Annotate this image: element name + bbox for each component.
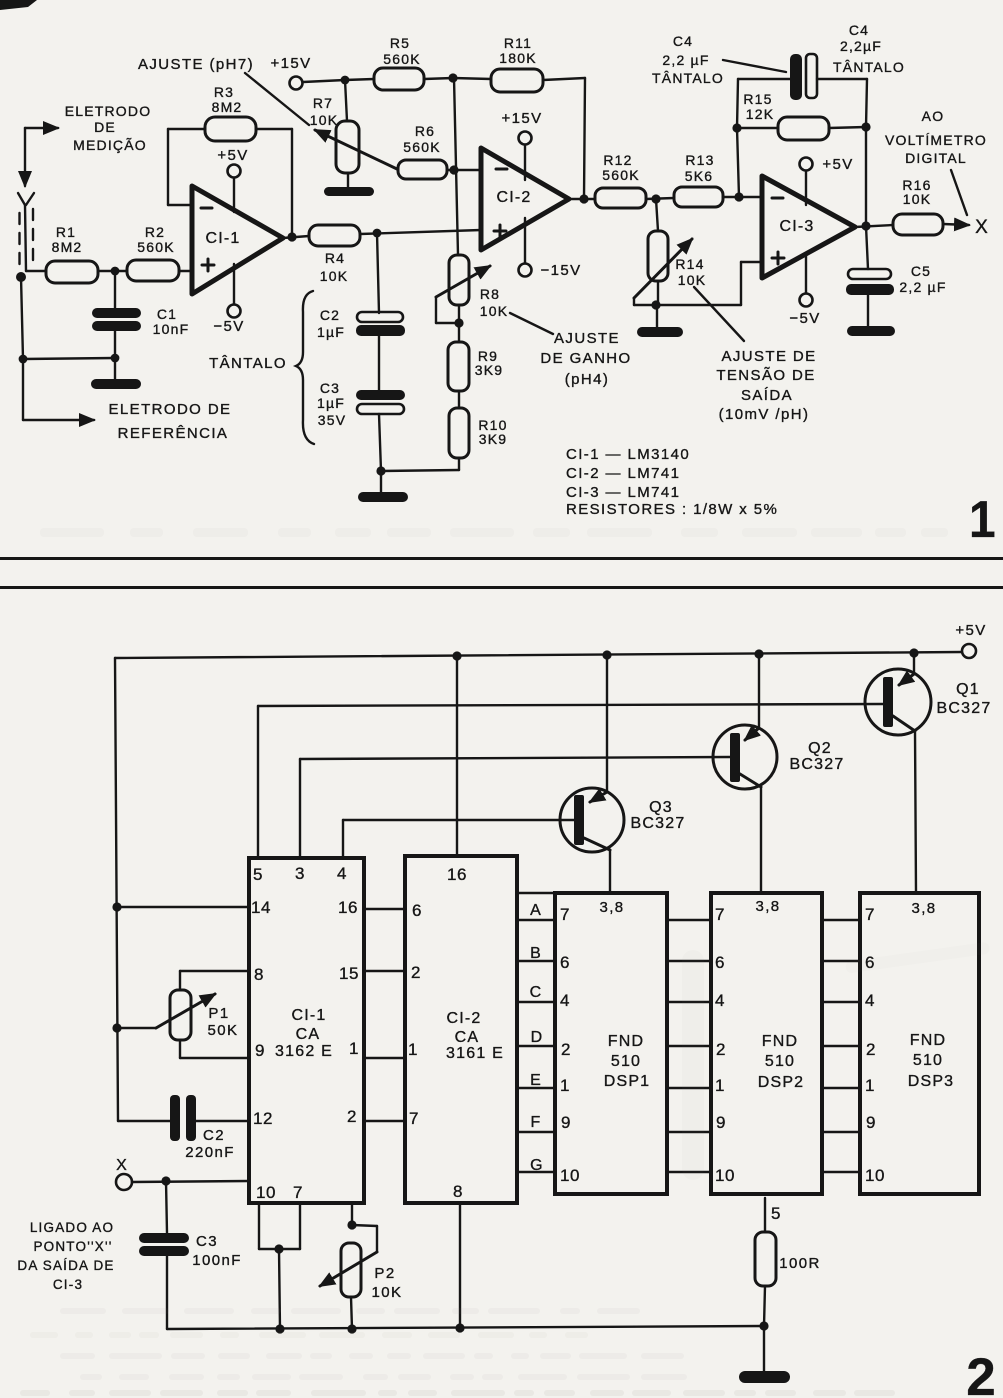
svg-text:CI-3: CI-3 <box>53 1277 83 1292</box>
svg-text:DE GANHO: DE GANHO <box>540 350 631 367</box>
node left rail <box>19 355 28 364</box>
node R1-R2-C1 <box>111 267 120 276</box>
svg-text:9: 9 <box>255 1041 265 1060</box>
svg-text:FND: FND <box>762 1033 798 1050</box>
bus DSP1-DSP2 <box>667 920 711 1172</box>
svg-text:CI-1: CI-1 <box>205 230 240 247</box>
label ELETRODO DE MEDICAO <box>65 103 152 153</box>
wire pin14 <box>117 906 249 908</box>
node X-C3 <box>161 1176 170 1185</box>
wire <box>179 270 193 272</box>
svg-text:C4: C4 <box>673 33 693 49</box>
wire CI1-2 to CI2-7 <box>364 1120 405 1122</box>
svg-text:BC327: BC327 <box>631 815 686 832</box>
wire <box>303 80 345 82</box>
ground fig2 <box>739 1326 790 1383</box>
wire pins 10-7 <box>259 1203 300 1329</box>
svg-text:3162 E: 3162 E <box>275 1043 333 1060</box>
wire bottom rail <box>167 1326 764 1329</box>
op-amp CI-3 <box>762 176 855 278</box>
electrode probe symbol <box>18 193 34 271</box>
arrow to measurement electrode <box>25 128 58 186</box>
svg-text:CI-3 — LM741: CI-3 — LM741 <box>566 484 680 501</box>
svg-text:1: 1 <box>865 1076 875 1095</box>
capacitor C1 <box>92 271 189 358</box>
svg-text:14: 14 <box>251 898 271 917</box>
svg-text:100R: 100R <box>779 1255 820 1272</box>
node CI-3 output <box>861 221 870 230</box>
svg-text:DSP3: DSP3 <box>908 1073 955 1090</box>
node pin14 <box>112 902 121 911</box>
IC CI-2 CA3161E <box>405 856 517 1203</box>
-5V supply CI-3 <box>789 255 820 327</box>
wire up to R15 <box>737 128 739 197</box>
parts list <box>566 446 778 518</box>
svg-text:6: 6 <box>412 901 422 920</box>
svg-text:180K: 180K <box>499 50 537 66</box>
svg-text:X: X <box>975 217 989 238</box>
node rail ground <box>759 1321 768 1330</box>
svg-text:DA SAÍDA DE: DA SAÍDA DE <box>17 1258 114 1273</box>
svg-text:1: 1 <box>715 1076 725 1095</box>
capacitor C2 <box>317 307 405 340</box>
wire CI2 pin8 to rail <box>459 1203 461 1328</box>
svg-text:X: X <box>116 1157 128 1174</box>
svg-text:A: A <box>530 902 542 919</box>
terminal +5V <box>955 622 986 658</box>
resistor R6 <box>398 123 454 179</box>
svg-text:3161 E: 3161 E <box>446 1045 504 1062</box>
svg-text:3: 3 <box>295 864 305 883</box>
trimpot R7 <box>310 80 397 173</box>
node CI-1 output <box>287 232 296 241</box>
svg-text:CI-3: CI-3 <box>779 218 814 235</box>
node rail pin10 <box>275 1324 284 1333</box>
wire <box>855 225 893 227</box>
svg-text:C5: C5 <box>911 263 931 279</box>
svg-text:9: 9 <box>716 1113 726 1132</box>
svg-text:AJUSTE: AJUSTE <box>554 330 620 347</box>
svg-text:CA: CA <box>455 1029 480 1046</box>
svg-text:8M2: 8M2 <box>212 99 243 115</box>
ground C5 <box>847 295 895 336</box>
wire to R10 <box>381 470 459 471</box>
display DSP3 FND510 <box>860 893 979 1194</box>
svg-text:510: 510 <box>913 1052 943 1069</box>
node P2 top <box>347 1220 356 1229</box>
wire to reference electrode <box>23 359 94 420</box>
display DSP1 FND510 <box>555 893 667 1194</box>
svg-text:7: 7 <box>865 905 875 924</box>
wire <box>26 270 46 272</box>
node R6-CI2 minus <box>449 165 458 174</box>
svg-text:C4: C4 <box>849 22 869 38</box>
svg-text:LIGADO AO: LIGADO AO <box>30 1220 114 1235</box>
svg-text:1: 1 <box>969 490 996 548</box>
wire C3 to bottom node <box>379 414 381 471</box>
ground divider <box>358 471 408 502</box>
svg-text:2: 2 <box>561 1040 571 1059</box>
svg-text:AO: AO <box>922 108 945 124</box>
resistor R13 <box>674 152 739 207</box>
svg-text:DE: DE <box>94 119 116 135</box>
svg-text:7: 7 <box>293 1183 303 1202</box>
svg-text:3,8: 3,8 <box>755 898 780 915</box>
wire <box>378 336 380 391</box>
ground R14 <box>637 305 683 337</box>
svg-text:R11: R11 <box>504 35 532 51</box>
node R13-R15 <box>734 192 743 201</box>
node pins10-7 <box>274 1244 283 1253</box>
svg-text:510: 510 <box>611 1053 641 1070</box>
svg-text:10K: 10K <box>480 303 509 319</box>
wire <box>23 358 115 359</box>
svg-text:2: 2 <box>866 1040 876 1059</box>
resistor R2 <box>127 224 179 281</box>
svg-text:R13: R13 <box>685 152 714 168</box>
wire left rail <box>115 658 118 1121</box>
svg-text:MEDIÇÃO: MEDIÇÃO <box>73 137 147 153</box>
node rail Q1 <box>909 648 918 657</box>
wire to CI-3 minus <box>739 196 762 198</box>
svg-text:R4: R4 <box>325 250 345 266</box>
svg-text:12K: 12K <box>746 106 775 122</box>
svg-text:BC327: BC327 <box>937 700 992 717</box>
node rail CI2-16 <box>452 651 461 660</box>
FIG2 <box>17 622 995 1398</box>
capacitor C3 <box>317 380 405 428</box>
svg-text:CI-2: CI-2 <box>496 189 531 206</box>
bus DSP2-DSP3 <box>822 920 860 1172</box>
svg-text:P1: P1 <box>208 1005 229 1022</box>
display DSP2 FND510 <box>711 893 822 1194</box>
svg-text:Q1: Q1 <box>956 681 980 698</box>
svg-text:2,2 µF: 2,2 µF <box>662 52 709 68</box>
transistor Q2 <box>713 654 844 893</box>
segment bus A-G <box>517 893 555 1174</box>
svg-text:C3: C3 <box>320 380 340 396</box>
svg-text:DSP2: DSP2 <box>758 1074 805 1091</box>
svg-text:TÂNTALO: TÂNTALO <box>652 70 724 86</box>
wire <box>283 236 309 238</box>
wire left rail <box>21 277 23 359</box>
wire <box>454 169 481 171</box>
svg-text:10K: 10K <box>903 191 932 207</box>
svg-text:(pH4): (pH4) <box>565 371 610 388</box>
-5V supply CI-1 <box>213 264 244 335</box>
svg-text:R2: R2 <box>145 224 165 240</box>
svg-text:TÂNTALO: TÂNTALO <box>209 355 287 372</box>
svg-text:CI-1 — LM3140: CI-1 — LM3140 <box>566 446 690 463</box>
svg-text:3K9: 3K9 <box>475 362 504 378</box>
svg-text:PONTO''X'': PONTO''X'' <box>33 1239 112 1254</box>
resistor R10 <box>449 391 508 470</box>
wire down to C2 <box>377 233 379 313</box>
svg-text:ELETRODO DE: ELETRODO DE <box>109 401 232 418</box>
svg-text:R6: R6 <box>415 123 435 139</box>
wire +5V rail <box>115 652 962 658</box>
resistor R1 <box>46 224 98 283</box>
trimpot R14 <box>634 199 706 305</box>
transistor Q1 <box>865 653 991 893</box>
svg-text:2: 2 <box>966 1348 995 1398</box>
node input <box>16 272 26 282</box>
svg-text:220nF: 220nF <box>185 1144 235 1161</box>
node rail Q2 <box>754 649 763 658</box>
svg-text:R5: R5 <box>390 35 410 51</box>
svg-text:Q2: Q2 <box>808 740 832 757</box>
svg-text:1: 1 <box>560 1076 570 1095</box>
svg-text:C3: C3 <box>196 1233 218 1250</box>
svg-text:DIGITAL: DIGITAL <box>905 150 967 166</box>
label AJUSTE DE GANHO (pH4) <box>510 313 632 388</box>
svg-text:R8: R8 <box>480 286 500 302</box>
IC CI-1 CA3162E <box>249 858 364 1203</box>
wire CI-1 pin3 to Q2 base <box>300 757 730 858</box>
label TANTALO with brace <box>209 291 314 444</box>
capacitor C5 <box>846 226 947 295</box>
svg-text:10K: 10K <box>678 272 707 288</box>
node P1 wiper <box>112 1023 121 1032</box>
svg-text:1: 1 <box>408 1040 418 1059</box>
wire CI-2 output <box>569 198 595 200</box>
svg-text:4: 4 <box>337 864 347 883</box>
svg-text:+5V: +5V <box>822 156 853 173</box>
node R4-C2 <box>373 229 382 238</box>
svg-text:2: 2 <box>347 1107 357 1126</box>
svg-text:8M2: 8M2 <box>52 239 83 255</box>
separator line 1 <box>0 557 1003 560</box>
svg-text:6: 6 <box>560 953 570 972</box>
wire minus node down to R8 <box>454 78 458 255</box>
terminal X <box>116 1157 132 1190</box>
svg-text:1µF: 1µF <box>317 395 345 411</box>
label ELETRODO DE REFERENCIA <box>109 401 232 442</box>
label AJUSTE DE TENSAO DE SAIDA <box>694 287 817 423</box>
svg-text:+5V: +5V <box>955 622 986 639</box>
svg-text:9: 9 <box>561 1113 571 1132</box>
svg-text:R15: R15 <box>743 91 772 107</box>
node divider bottom <box>376 466 385 475</box>
svg-text:(10mV /pH): (10mV /pH) <box>719 406 810 423</box>
wire R14 node to CI-3 + <box>656 262 762 305</box>
wire R4 to CI-2 + <box>360 230 481 234</box>
resistor R9 <box>448 323 503 391</box>
op-amp CI-2 <box>481 148 569 250</box>
node R15 right <box>861 122 870 131</box>
svg-text:560K: 560K <box>383 51 421 67</box>
svg-text:C: C <box>530 984 543 1001</box>
svg-text:2,2µF: 2,2µF <box>840 38 882 54</box>
svg-text:Q3: Q3 <box>649 799 673 816</box>
svg-text:−5V: −5V <box>213 318 244 335</box>
svg-text:DSP1: DSP1 <box>604 1073 651 1090</box>
svg-text:AJUSTE (pH7): AJUSTE (pH7) <box>138 56 254 73</box>
svg-text:1µF: 1µF <box>317 324 345 340</box>
wire CI1-16 to CI2-6 <box>364 908 405 910</box>
svg-text:ELETRODO: ELETRODO <box>65 103 152 119</box>
svg-text:REFERÊNCIA: REFERÊNCIA <box>118 425 229 442</box>
resistor R12 <box>595 152 674 208</box>
svg-text:2: 2 <box>716 1040 726 1059</box>
svg-text:D: D <box>531 1029 544 1046</box>
FIG1 <box>0 0 1003 589</box>
label C4 right <box>833 22 905 75</box>
capacitor C3 <box>139 1181 242 1329</box>
resistor R5 <box>345 35 453 90</box>
svg-text:8: 8 <box>453 1182 463 1201</box>
resistor R16 <box>893 177 969 235</box>
node rail pin8 <box>455 1323 464 1332</box>
svg-text:10: 10 <box>256 1183 276 1202</box>
svg-text:5: 5 <box>771 1204 781 1223</box>
svg-text:VOLTÍMETRO: VOLTÍMETRO <box>885 132 987 148</box>
capacitor C2 <box>118 1095 249 1161</box>
svg-text:2,2 µF: 2,2 µF <box>899 279 946 295</box>
scan mark top-left corner <box>0 0 37 10</box>
svg-text:CI-2: CI-2 <box>446 1010 481 1027</box>
-15V supply CI-2 <box>519 218 582 279</box>
wire rail to CI-2 pin16 <box>456 656 458 856</box>
svg-text:CA: CA <box>296 1026 321 1043</box>
svg-text:16: 16 <box>338 898 358 917</box>
node R15 left <box>732 123 741 132</box>
svg-text:C2: C2 <box>320 307 340 323</box>
node R12-R13-R14 <box>651 194 660 203</box>
wire X to pin <box>132 1181 249 1182</box>
svg-text:510: 510 <box>765 1053 795 1070</box>
svg-text:B: B <box>530 945 542 962</box>
svg-text:R3: R3 <box>214 84 234 100</box>
svg-text:−5V: −5V <box>789 310 820 327</box>
node R14 bottom <box>651 300 660 309</box>
ground R7 <box>324 173 374 196</box>
svg-text:10: 10 <box>865 1166 885 1185</box>
separator line 2 <box>0 586 1003 589</box>
node rail P2 <box>347 1324 356 1333</box>
trimpot P2 <box>320 1203 402 1329</box>
ground C1 <box>91 358 141 389</box>
svg-text:6: 6 <box>715 953 725 972</box>
node +15V rail R7 <box>341 76 350 85</box>
wire <box>98 270 127 272</box>
wire R3 to output <box>256 129 292 237</box>
node rail Q3 <box>602 650 611 659</box>
svg-text:2: 2 <box>411 963 421 982</box>
svg-text:FND: FND <box>608 1033 644 1050</box>
resistor R11 <box>453 35 585 198</box>
+15V supply CI-2 <box>501 110 542 180</box>
svg-text:P2: P2 <box>374 1265 395 1282</box>
scan artifacts (bleed-through ghosts) <box>20 528 990 1396</box>
op-amp CI-1 <box>192 186 283 294</box>
svg-text:4: 4 <box>715 991 725 1010</box>
svg-text:5K6: 5K6 <box>685 168 714 184</box>
transistor Q3 <box>560 655 685 893</box>
svg-text:C1: C1 <box>157 306 177 322</box>
svg-text:16: 16 <box>447 865 467 884</box>
svg-text:4: 4 <box>865 991 875 1010</box>
node R8-R9 <box>454 318 463 327</box>
svg-text:10K: 10K <box>320 268 349 284</box>
svg-text:R7: R7 <box>313 95 333 111</box>
svg-text:BC327: BC327 <box>790 756 845 773</box>
svg-text:+15V: +15V <box>501 110 542 127</box>
svg-text:−15V: −15V <box>540 262 581 279</box>
resistor 100R <box>755 1198 821 1326</box>
svg-text:4: 4 <box>560 991 570 1010</box>
svg-text:CI-1: CI-1 <box>291 1007 326 1024</box>
wire CI1-15 to CI2-2 <box>364 970 405 972</box>
wire CI1-1 to CI2-1 <box>364 1057 405 1059</box>
svg-text:10K: 10K <box>310 112 339 128</box>
svg-text:7: 7 <box>715 905 725 924</box>
svg-text:FND: FND <box>910 1032 946 1049</box>
svg-text:R1: R1 <box>56 224 76 240</box>
+5V supply CI-1 <box>217 147 248 212</box>
svg-text:35V: 35V <box>318 412 347 428</box>
svg-text:AJUSTE DE: AJUSTE DE <box>721 348 816 365</box>
trimpot R8 <box>436 255 508 323</box>
svg-text:10: 10 <box>560 1166 580 1185</box>
svg-text:560K: 560K <box>403 139 441 155</box>
terminal +15V <box>290 77 303 90</box>
svg-text:100nF: 100nF <box>192 1252 242 1269</box>
svg-text:+15V: +15V <box>270 55 311 72</box>
svg-text:560K: 560K <box>602 167 640 183</box>
wire R15 node down to output <box>865 127 867 226</box>
trimpot P1 <box>117 971 249 1058</box>
svg-text:RESISTORES : 1/8W x 5%: RESISTORES : 1/8W x 5% <box>566 501 778 518</box>
svg-text:15: 15 <box>339 964 359 983</box>
svg-text:1: 1 <box>349 1039 359 1058</box>
resistor R3 <box>205 84 256 141</box>
svg-text:7: 7 <box>560 905 570 924</box>
svg-text:9: 9 <box>866 1113 876 1132</box>
label AO VOLTIMETRO DIGITAL <box>885 108 987 215</box>
svg-text:R12: R12 <box>603 152 632 168</box>
label LIGADO AO PONTO X <box>17 1220 114 1292</box>
svg-text:E: E <box>530 1072 542 1089</box>
wire CI-1 inverting input <box>168 129 205 205</box>
svg-text:C2: C2 <box>203 1127 225 1144</box>
svg-text:CI-2 — LM741: CI-2 — LM741 <box>566 465 680 482</box>
svg-text:7: 7 <box>409 1109 419 1128</box>
node R5-R11 <box>448 73 457 82</box>
svg-text:50K: 50K <box>208 1022 239 1039</box>
svg-text:12: 12 <box>253 1109 273 1128</box>
svg-text:560K: 560K <box>137 239 175 255</box>
svg-text:F: F <box>531 1114 542 1131</box>
node C1 bottom <box>111 354 120 363</box>
svg-text:SAÍDA: SAÍDA <box>741 387 793 404</box>
resistor R4 <box>309 225 360 284</box>
svg-text:10K: 10K <box>372 1284 403 1301</box>
svg-text:10nF: 10nF <box>153 321 190 337</box>
capacitor C4 <box>737 54 867 128</box>
svg-text:TENSÃO DE: TENSÃO DE <box>716 367 815 384</box>
node CI-2 out <box>579 194 588 203</box>
+5V supply CI-3 <box>800 156 854 205</box>
label C4 left <box>652 33 786 86</box>
svg-text:3K9: 3K9 <box>479 431 508 447</box>
svg-text:8: 8 <box>254 965 264 984</box>
svg-text:10: 10 <box>715 1166 735 1185</box>
resistor R15 <box>737 91 866 140</box>
svg-text:G: G <box>530 1157 544 1174</box>
wire CI-1 pin4 to Q3 base <box>343 820 574 858</box>
svg-text:5: 5 <box>253 865 263 884</box>
